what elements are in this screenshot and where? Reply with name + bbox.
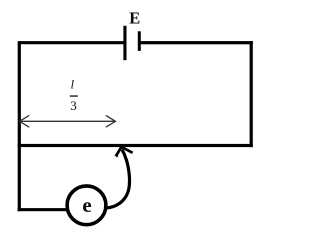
wire top-right (battery right lead) xyxy=(140,41,253,44)
svg-text:e: e xyxy=(82,193,91,217)
battery E left plate (long) xyxy=(123,26,126,60)
svg-text:l: l xyxy=(71,77,75,92)
wire bottom-left to galvanometer xyxy=(18,208,67,211)
wire bottom (potentiometer wire) xyxy=(18,144,253,147)
svg-text:3: 3 xyxy=(70,98,77,113)
galvanometer cell e circle xyxy=(67,186,106,225)
fraction bar xyxy=(70,95,78,96)
wire top-left (battery left lead) xyxy=(19,41,125,44)
wire right vertical xyxy=(250,41,253,147)
wire jockey curved lead with arrow xyxy=(106,150,130,209)
svg-text:E: E xyxy=(129,9,140,28)
battery E right plate (short) xyxy=(138,31,141,51)
dimension arrow l/3 (double-headed) xyxy=(20,120,116,122)
arrowhead at jockey contact xyxy=(116,147,133,156)
wire left vertical xyxy=(18,41,21,211)
